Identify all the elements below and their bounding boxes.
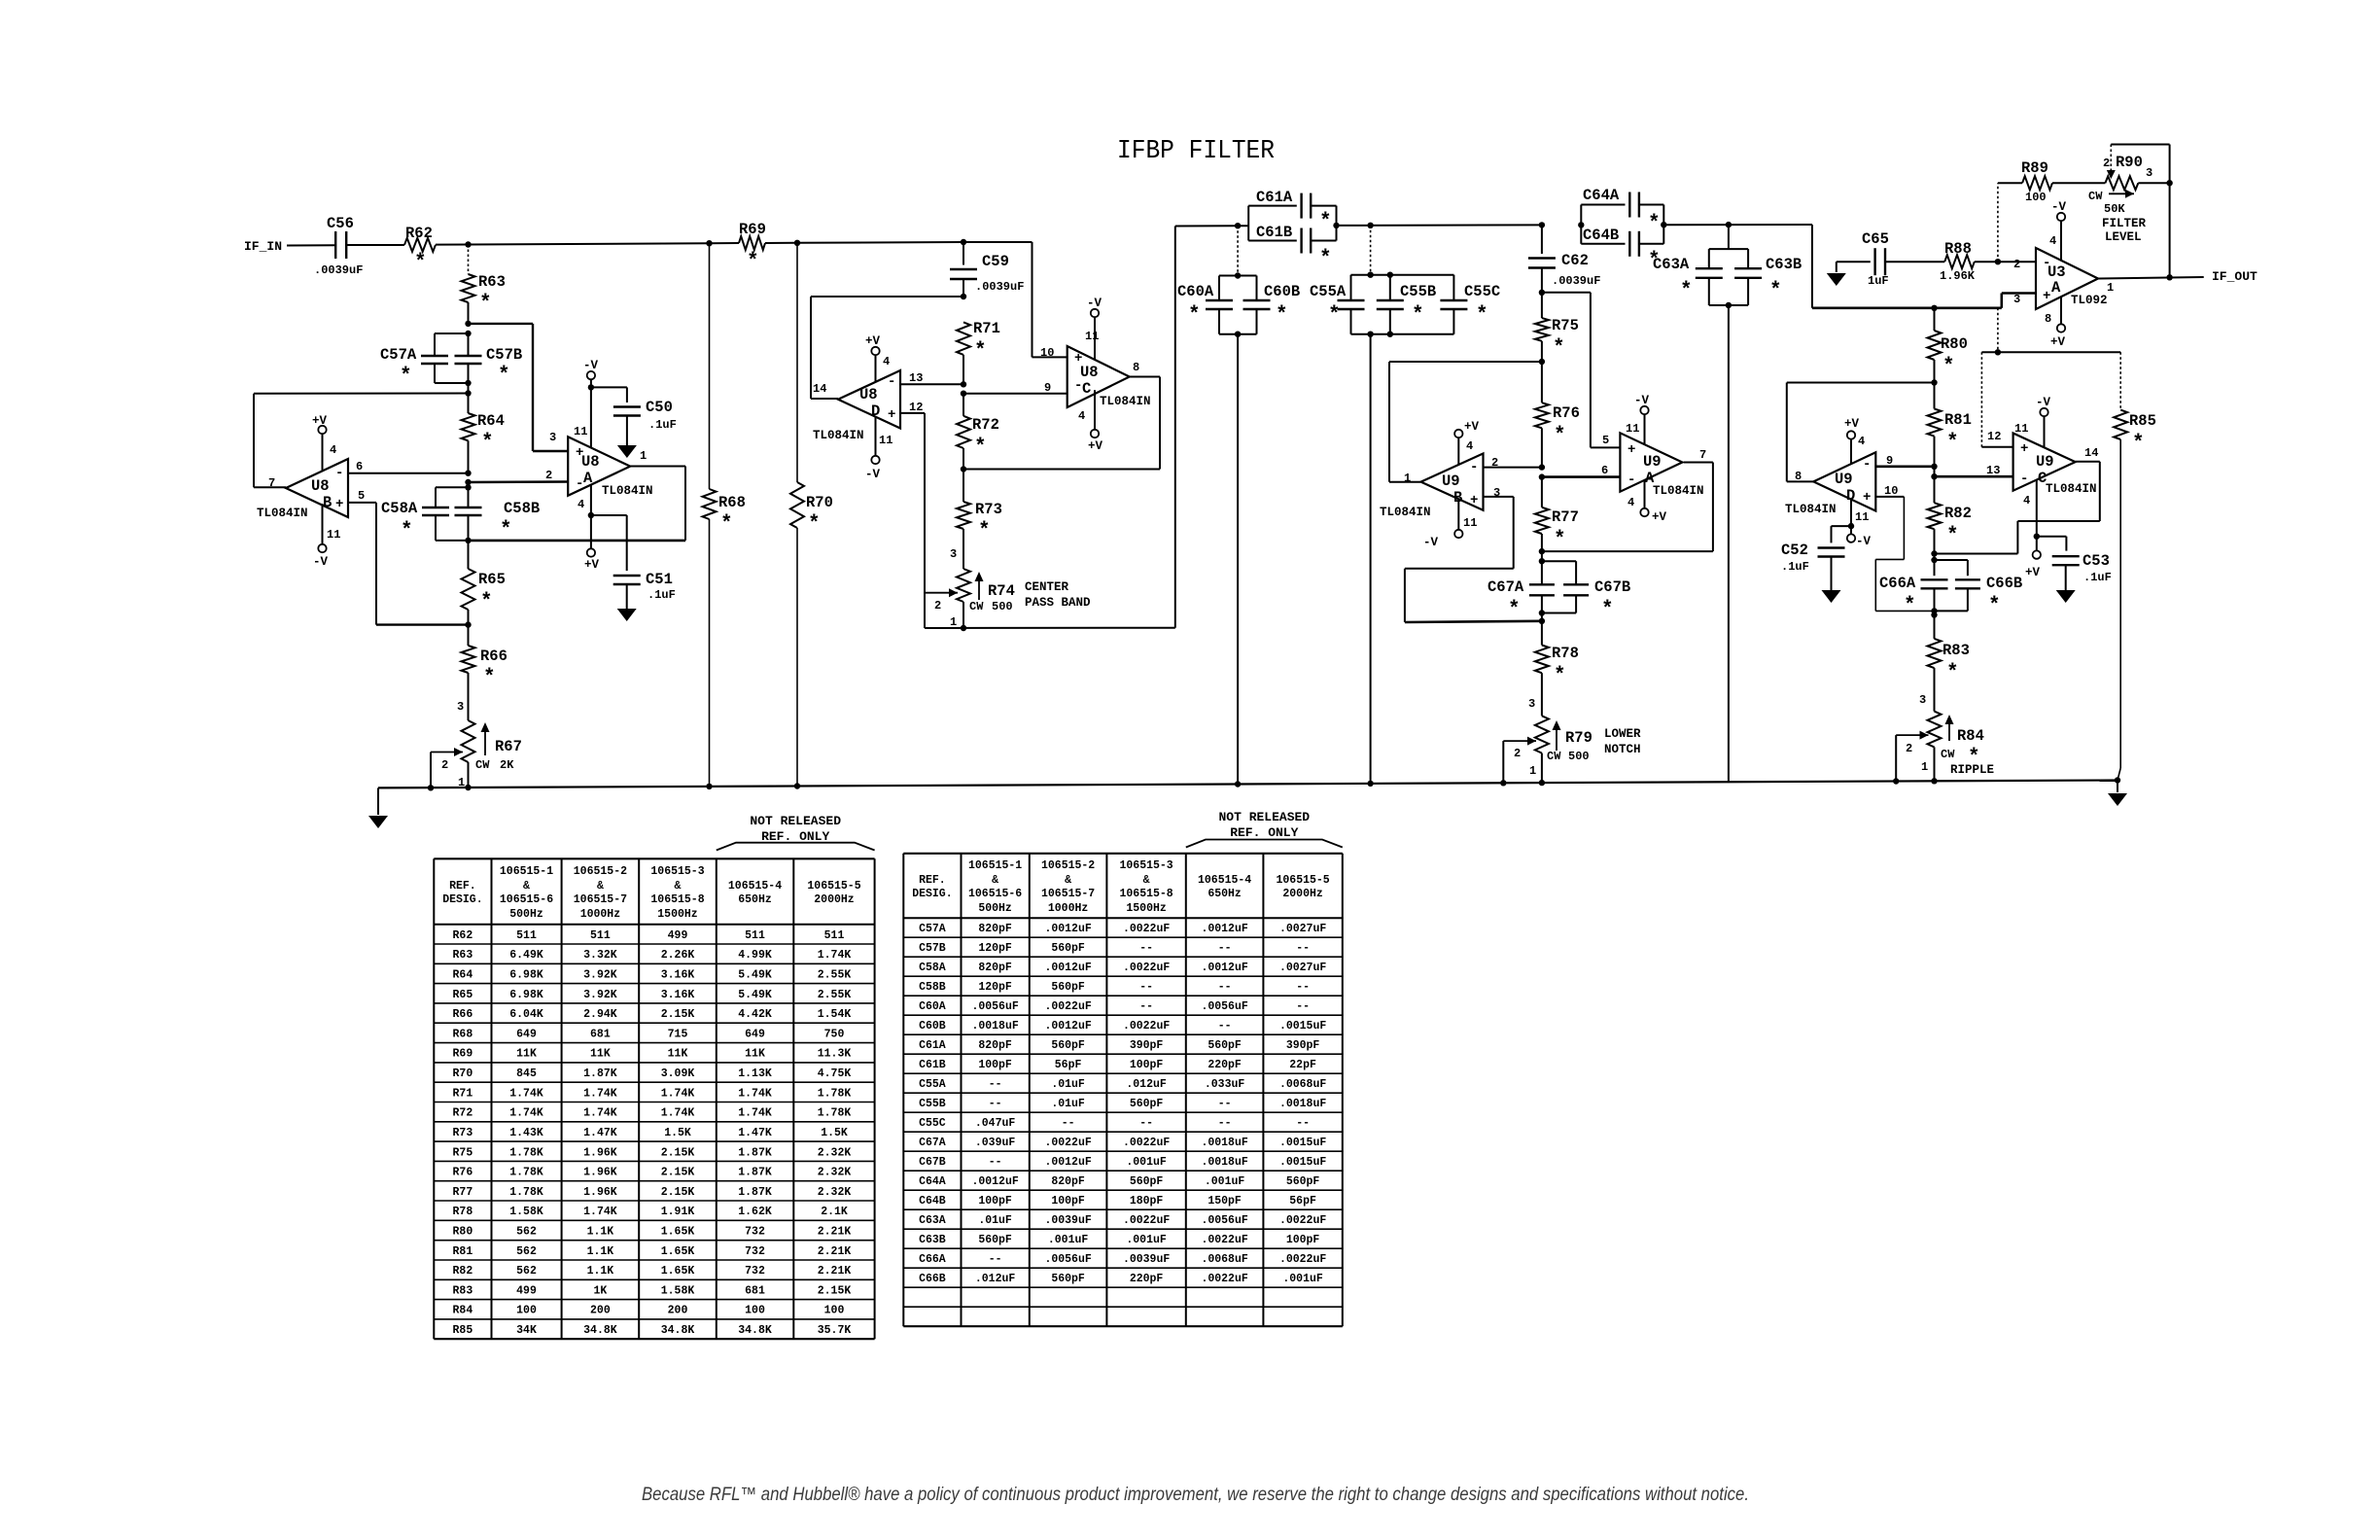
svg-text:1.1K: 1.1K: [587, 1226, 614, 1239]
wire C60 to ground bus: [1237, 334, 1239, 785]
svg-text:*: *: [1553, 337, 1565, 360]
capacitor C66A: [1931, 550, 1937, 556]
svg-text:500Hz: 500Hz: [509, 908, 543, 921]
capacitor C65 and input ground: [1836, 262, 1837, 272]
svg-text:100pF: 100pF: [1130, 1059, 1164, 1071]
svg-text:U8: U8: [1080, 364, 1099, 381]
wire: [436, 244, 469, 246]
svg-text:--: --: [1062, 1117, 1075, 1130]
svg-text:C55B: C55B: [919, 1098, 946, 1110]
svg-text:.0039uF: .0039uF: [975, 280, 1024, 294]
svg-text:4: 4: [1466, 439, 1473, 453]
svg-text:C67A: C67A: [1487, 578, 1524, 596]
bracket left: [717, 843, 875, 851]
wire C58 bottom to U8A output: [469, 540, 686, 542]
svg-text:14: 14: [2084, 446, 2098, 460]
svg-text:13: 13: [1986, 464, 2000, 477]
svg-text:2000Hz: 2000Hz: [814, 893, 855, 906]
U9B -V pin 11: [1457, 499, 1459, 530]
svg-text:.0068uF: .0068uF: [1279, 1078, 1326, 1091]
svg-text:1: 1: [640, 449, 647, 463]
svg-text:-: -: [2020, 472, 2028, 487]
svg-text:C61B: C61B: [1256, 224, 1292, 241]
svg-text:106515-6: 106515-6: [968, 888, 1022, 900]
svg-text:106515-4: 106515-4: [1198, 874, 1251, 887]
svg-text:1.74K: 1.74K: [583, 1107, 617, 1120]
svg-text:106515-6: 106515-6: [500, 893, 553, 906]
svg-text:R72: R72: [453, 1107, 473, 1120]
resistor R85: [2119, 352, 2121, 409]
svg-text:C55B: C55B: [1400, 283, 1436, 300]
svg-text:106515-3: 106515-3: [650, 865, 704, 878]
svg-text:NOTCH: NOTCH: [1604, 743, 1641, 756]
svg-text:+: +: [335, 497, 343, 512]
capacitor C64A/C64B block: [1578, 222, 1584, 227]
svg-text:R73: R73: [453, 1127, 473, 1139]
capacitor C53: [2052, 555, 2080, 557]
svg-text:220pF: 220pF: [1207, 1059, 1242, 1071]
svg-text:C57B: C57B: [919, 942, 946, 955]
svg-text:.0022uF: .0022uF: [1123, 962, 1170, 974]
wire C59 to U8D: [811, 296, 963, 297]
svg-text:*: *: [1648, 213, 1661, 235]
svg-text:.012uF: .012uF: [1126, 1078, 1167, 1091]
svg-text:2.55K: 2.55K: [818, 969, 852, 982]
capacitor C57B: [468, 333, 470, 357]
svg-text:R63: R63: [478, 273, 506, 291]
svg-text:C55A: C55A: [1310, 283, 1347, 300]
resistor R78: [1539, 618, 1545, 624]
resistor R88: [1944, 255, 1975, 268]
svg-text:.0012uF: .0012uF: [1044, 962, 1091, 974]
svg-text:2.26K: 2.26K: [661, 949, 695, 962]
svg-text:650Hz: 650Hz: [738, 893, 772, 906]
svg-text:100pF: 100pF: [1286, 1234, 1320, 1246]
svg-text:*: *: [483, 667, 496, 689]
resistor R64: [462, 413, 475, 440]
svg-text:B: B: [323, 494, 332, 511]
svg-text:*: *: [1946, 662, 1959, 684]
svg-text:.001uF: .001uF: [1126, 1234, 1167, 1246]
svg-text:1: 1: [2107, 281, 2114, 295]
svg-text:R75: R75: [453, 1146, 473, 1159]
op-amp U3A: [2036, 248, 2098, 309]
svg-text:TL084IN: TL084IN: [1785, 503, 1837, 516]
capacitor C50: [613, 405, 641, 407]
svg-text:&: &: [1065, 874, 1071, 887]
svg-text:*: *: [1319, 248, 1332, 270]
svg-text:.0018uF: .0018uF: [971, 1020, 1018, 1032]
wire U8B pin 6: [348, 472, 469, 474]
svg-text:2.32K: 2.32K: [818, 1186, 852, 1199]
svg-text:4: 4: [2049, 234, 2056, 248]
svg-text:C65: C65: [1862, 230, 1889, 248]
ground: [617, 445, 637, 458]
wire U9C output feedback: [2075, 461, 2099, 463]
svg-text:PASS BAND: PASS BAND: [1025, 596, 1091, 610]
U9B +V pin 4: [1457, 437, 1459, 465]
svg-text:C61A: C61A: [1256, 189, 1293, 206]
svg-text:34K: 34K: [516, 1324, 537, 1337]
op-amp U9C: [2013, 434, 2076, 491]
svg-text:6.04K: 6.04K: [509, 1008, 543, 1021]
svg-text:C55C: C55C: [1464, 283, 1500, 300]
U9A +V pin 4: [1644, 480, 1646, 508]
svg-text:*: *: [1328, 304, 1341, 327]
U8A -V rail and C50: [587, 371, 595, 379]
svg-text:560pF: 560pF: [1051, 1039, 1085, 1052]
svg-text:649: 649: [516, 1028, 537, 1040]
svg-text:2: 2: [934, 599, 941, 612]
svg-text:732: 732: [745, 1245, 765, 1258]
wire U9D pin 9: [1875, 465, 1934, 468]
svg-text:CW: CW: [2088, 190, 2103, 203]
svg-text:*: *: [400, 366, 412, 388]
wire U9B pin 3 loop: [1484, 496, 1514, 498]
capacitor C55A/B/C block: [1370, 226, 1372, 275]
svg-text:C58A: C58A: [919, 962, 946, 974]
svg-text:.01uF: .01uF: [1051, 1098, 1085, 1110]
svg-text:.0022uF: .0022uF: [1279, 1253, 1326, 1266]
svg-text:106515-2: 106515-2: [574, 865, 627, 878]
svg-text:.047uF: .047uF: [975, 1117, 1016, 1130]
svg-text:+V: +V: [312, 414, 328, 428]
U3A -V pin 4: [2060, 221, 2062, 261]
svg-text:C60B: C60B: [919, 1020, 946, 1032]
svg-text:--: --: [1296, 942, 1310, 955]
svg-text:2: 2: [1906, 742, 1912, 755]
capacitor C62: [1539, 222, 1545, 227]
capacitor C61A: [1247, 206, 1249, 241]
wire: [1663, 224, 1812, 226]
wire: [765, 242, 797, 244]
svg-text:*: *: [1601, 599, 1614, 621]
svg-text:200: 200: [590, 1305, 611, 1317]
svg-text:1.74K: 1.74K: [509, 1087, 543, 1100]
svg-text:--: --: [1218, 1117, 1232, 1130]
svg-text:4.42K: 4.42K: [738, 1008, 772, 1021]
svg-text:U8: U8: [311, 477, 330, 495]
svg-text:C63A: C63A: [919, 1214, 946, 1227]
svg-text:1.54K: 1.54K: [818, 1008, 852, 1021]
svg-text:1500Hz: 1500Hz: [1126, 902, 1167, 915]
svg-text:-V: -V: [2036, 396, 2051, 409]
svg-text:1.65K: 1.65K: [661, 1245, 695, 1258]
svg-text:+V: +V: [1844, 417, 1860, 431]
svg-text:-: -: [1627, 472, 1635, 488]
svg-text:R84: R84: [1957, 727, 1984, 745]
svg-text:3: 3: [457, 700, 464, 714]
U3A +V pin 8: [2060, 297, 2062, 324]
svg-text:100pF: 100pF: [978, 1059, 1012, 1071]
svg-text:+: +: [1627, 442, 1635, 458]
svg-text:820pF: 820pF: [1051, 1175, 1085, 1188]
svg-text:1.74K: 1.74K: [583, 1087, 617, 1100]
svg-text:R74: R74: [988, 582, 1015, 600]
svg-text:2.32K: 2.32K: [818, 1146, 852, 1159]
svg-text:499: 499: [668, 929, 688, 942]
svg-text:1: 1: [950, 615, 957, 629]
svg-text:5.49K: 5.49K: [738, 969, 772, 982]
wire: [797, 241, 963, 244]
svg-text:C63B: C63B: [1766, 256, 1802, 273]
svg-text:14: 14: [813, 382, 826, 396]
svg-text:--: --: [1218, 1098, 1232, 1110]
svg-text:12: 12: [1987, 430, 2001, 443]
svg-text:820pF: 820pF: [978, 962, 1012, 974]
svg-text:IFBP FILTER: IFBP FILTER: [1117, 137, 1275, 166]
ground: [617, 609, 637, 621]
svg-text:--: --: [989, 1098, 1002, 1110]
svg-text:3: 3: [950, 547, 957, 561]
svg-text:2.21K: 2.21K: [818, 1265, 852, 1277]
svg-text:+V: +V: [1464, 420, 1480, 434]
svg-text:681: 681: [745, 1284, 765, 1297]
svg-text:1.58K: 1.58K: [661, 1284, 695, 1297]
wire C62 to U9A pin 5: [1542, 292, 1591, 294]
ground bus: [378, 781, 2117, 788]
svg-text:R68: R68: [453, 1028, 473, 1040]
svg-text:.0018uF: .0018uF: [1279, 1098, 1326, 1110]
svg-text:LOWER: LOWER: [1604, 727, 1641, 741]
svg-text:*: *: [479, 293, 492, 315]
svg-text:REF. ONLY: REF. ONLY: [1230, 825, 1298, 840]
svg-text:7: 7: [1699, 448, 1706, 462]
svg-text:.0018uF: .0018uF: [1201, 1137, 1247, 1149]
svg-text:R69: R69: [453, 1048, 473, 1061]
svg-text:R70: R70: [453, 1067, 473, 1080]
resistor R62: [404, 238, 436, 252]
svg-text:-V: -V: [1856, 535, 1872, 548]
svg-text:500: 500: [992, 600, 1013, 613]
svg-text:C60B: C60B: [1264, 283, 1300, 300]
svg-text:22pF: 22pF: [1289, 1059, 1316, 1071]
svg-text:1.96K: 1.96K: [1940, 269, 1976, 283]
svg-text:&: &: [597, 880, 604, 892]
svg-text:C64B: C64B: [1583, 227, 1619, 244]
svg-text:1.65K: 1.65K: [661, 1226, 695, 1239]
svg-text:*: *: [1188, 304, 1201, 327]
svg-text:562: 562: [516, 1226, 537, 1239]
svg-text:R66: R66: [480, 647, 507, 665]
svg-text:3: 3: [1528, 697, 1535, 711]
svg-text:.0022uF: .0022uF: [1201, 1234, 1247, 1246]
svg-text:3.16K: 3.16K: [661, 989, 695, 1001]
svg-text:+V: +V: [1652, 510, 1667, 524]
svg-text:2: 2: [441, 758, 448, 772]
svg-text:5: 5: [358, 489, 365, 503]
svg-text:.0012uF: .0012uF: [1201, 962, 1247, 974]
svg-text:.0022uF: .0022uF: [1044, 1000, 1091, 1013]
ground right: [2117, 781, 2118, 793]
svg-text:.0012uF: .0012uF: [1044, 923, 1091, 935]
svg-text:1.78K: 1.78K: [818, 1107, 852, 1120]
op-amp U8B: [286, 459, 348, 517]
svg-text:120pF: 120pF: [978, 942, 1012, 955]
svg-text:C58B: C58B: [504, 500, 540, 517]
U8C +V pin 4: [1094, 390, 1096, 430]
svg-text:1.78K: 1.78K: [509, 1186, 543, 1199]
svg-text:+V: +V: [2050, 335, 2066, 349]
resistor R73: [962, 470, 964, 503]
svg-text:.0015uF: .0015uF: [1279, 1137, 1326, 1149]
svg-text:R81: R81: [453, 1245, 473, 1258]
svg-text:6.98K: 6.98K: [509, 969, 543, 982]
svg-text:180pF: 180pF: [1130, 1195, 1164, 1207]
svg-text:R64: R64: [453, 969, 473, 982]
svg-text:R75: R75: [1552, 317, 1579, 334]
svg-text:.0056uF: .0056uF: [971, 1000, 1018, 1013]
svg-text:C57B: C57B: [486, 346, 522, 364]
svg-text:*: *: [1276, 304, 1288, 327]
svg-text:.0022uF: .0022uF: [1123, 923, 1170, 935]
svg-text:R66: R66: [453, 1008, 473, 1021]
svg-text:R90: R90: [2116, 154, 2143, 171]
svg-text:R77: R77: [453, 1186, 473, 1199]
svg-text:106515-2: 106515-2: [1041, 859, 1095, 872]
svg-text:.0012uF: .0012uF: [1201, 923, 1247, 935]
wire C63 to ground bus: [1728, 305, 1730, 782]
svg-text:820pF: 820pF: [978, 1039, 1012, 1052]
svg-text:8: 8: [1133, 361, 1139, 374]
svg-text:5: 5: [1602, 434, 1609, 447]
svg-text:1.13K: 1.13K: [738, 1067, 772, 1080]
svg-text:.0027uF: .0027uF: [1279, 923, 1326, 935]
wire: [1337, 224, 1542, 227]
svg-text:R83: R83: [453, 1284, 473, 1297]
svg-text:.0056uF: .0056uF: [1201, 1000, 1247, 1013]
svg-text:11K: 11K: [668, 1048, 688, 1061]
svg-text:750: 750: [824, 1028, 845, 1040]
svg-text:511: 511: [516, 929, 537, 942]
wire C55 to ground bus: [1370, 334, 1372, 784]
svg-text:681: 681: [590, 1028, 611, 1040]
svg-text:.039uF: .039uF: [975, 1137, 1016, 1149]
wire: [346, 244, 404, 246]
svg-text:&: &: [523, 880, 530, 892]
svg-text:R82: R82: [453, 1265, 473, 1277]
svg-text:R84: R84: [453, 1305, 473, 1317]
svg-text:5.49K: 5.49K: [738, 989, 772, 1001]
svg-text:2.15K: 2.15K: [661, 1186, 695, 1199]
svg-text:C67B: C67B: [919, 1156, 946, 1169]
resistor R63: [468, 245, 470, 275]
svg-text:.0022uF: .0022uF: [1123, 1020, 1170, 1032]
svg-text:*: *: [1680, 280, 1693, 302]
svg-text:732: 732: [745, 1265, 765, 1277]
svg-text:*: *: [1904, 595, 1916, 617]
svg-text:1.74K: 1.74K: [661, 1087, 695, 1100]
op-amp U8D: [838, 370, 900, 429]
svg-text:TL084IN: TL084IN: [2046, 482, 2097, 496]
svg-text:U9: U9: [1835, 471, 1853, 488]
resistor R68: [709, 243, 711, 489]
svg-text:REF. ONLY: REF. ONLY: [761, 829, 829, 844]
svg-text:6: 6: [1601, 464, 1608, 477]
svg-text:2: 2: [545, 469, 552, 482]
svg-text:2: 2: [1514, 747, 1521, 760]
svg-text:-V: -V: [583, 359, 599, 372]
svg-text:1500Hz: 1500Hz: [657, 908, 698, 921]
svg-text:1.74K: 1.74K: [509, 1107, 543, 1120]
svg-text:560pF: 560pF: [978, 1234, 1012, 1246]
svg-text:C50: C50: [646, 399, 673, 416]
svg-text:390pF: 390pF: [1130, 1039, 1164, 1052]
svg-text:2000Hz: 2000Hz: [1282, 888, 1323, 900]
svg-text:.0018uF: .0018uF: [1201, 1156, 1247, 1169]
svg-text:106515-8: 106515-8: [650, 893, 704, 906]
svg-text:R62: R62: [405, 225, 433, 242]
capacitor C61B: [1248, 240, 1297, 242]
svg-text:C63B: C63B: [919, 1234, 946, 1246]
svg-text:TL084IN: TL084IN: [813, 429, 864, 442]
svg-text:11: 11: [1085, 330, 1099, 343]
capacitor C63A/C63B block: [1728, 225, 1730, 249]
svg-text:4: 4: [2023, 494, 2030, 507]
svg-text:.0022uF: .0022uF: [1279, 1214, 1326, 1227]
svg-text:.0012uF: .0012uF: [1044, 1020, 1091, 1032]
svg-text:6: 6: [356, 460, 363, 473]
svg-text:499: 499: [516, 1284, 537, 1297]
potentiometer R90: [2105, 176, 2138, 190]
svg-text:R85: R85: [2129, 412, 2156, 430]
table resistor values: [434, 857, 874, 859]
svg-text:*: *: [974, 437, 987, 459]
svg-text:511: 511: [590, 929, 611, 942]
wire U9D pin 10 jog: [1875, 496, 1904, 498]
svg-text:560pF: 560pF: [1051, 1273, 1085, 1285]
svg-text:.0022uF: .0022uF: [1044, 1137, 1091, 1149]
wire U8D pin 13: [900, 383, 963, 385]
svg-text:-V: -V: [1423, 536, 1439, 549]
svg-text:--: --: [1218, 981, 1232, 994]
svg-text:.0022uF: .0022uF: [1123, 1137, 1170, 1149]
svg-text:845: 845: [516, 1067, 537, 1080]
svg-text:3: 3: [549, 431, 556, 444]
svg-text:1uF: 1uF: [1868, 274, 1889, 288]
svg-text:106515-1: 106515-1: [968, 859, 1022, 872]
svg-text:500Hz: 500Hz: [978, 902, 1012, 915]
svg-text:+V: +V: [1088, 439, 1103, 453]
svg-text:1.74K: 1.74K: [738, 1087, 772, 1100]
svg-text:U8: U8: [859, 386, 878, 403]
svg-text:*: *: [1942, 356, 1955, 378]
svg-text:34.8K: 34.8K: [738, 1324, 772, 1337]
svg-text:820pF: 820pF: [978, 923, 1012, 935]
wire U3A node down right side: [1811, 225, 1813, 308]
wire: [2052, 182, 2105, 184]
svg-text:3.32K: 3.32K: [583, 949, 617, 962]
svg-text:--: --: [1139, 1000, 1153, 1013]
svg-text:560pF: 560pF: [1130, 1098, 1164, 1110]
svg-text:2K: 2K: [500, 758, 514, 772]
svg-text:560pF: 560pF: [1130, 1175, 1164, 1188]
svg-text:1.87K: 1.87K: [738, 1146, 772, 1159]
svg-text:-: -: [335, 466, 343, 481]
svg-text:1000Hz: 1000Hz: [580, 908, 621, 921]
svg-text:REF.: REF.: [449, 880, 476, 892]
svg-text:R67: R67: [495, 738, 522, 755]
svg-text:*: *: [1319, 211, 1332, 233]
svg-text:.001uF: .001uF: [1126, 1156, 1167, 1169]
svg-text:1.96K: 1.96K: [583, 1186, 617, 1199]
svg-text:649: 649: [745, 1028, 765, 1040]
svg-text:R64: R64: [477, 412, 505, 430]
svg-text:2.32K: 2.32K: [818, 1167, 852, 1179]
ground: [2056, 590, 2076, 603]
svg-text:R69: R69: [739, 221, 766, 238]
op-amp U9B: [1421, 454, 1484, 510]
